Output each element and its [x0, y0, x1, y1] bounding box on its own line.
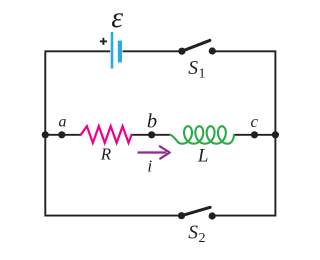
wire: middle branch left junction to resistor [45, 134, 81, 136]
svg-text:a: a [59, 114, 67, 131]
resistor R zigzag [81, 126, 132, 143]
battery plate long (negative-side tall thin) [111, 32, 114, 69]
svg-text:i: i [147, 156, 152, 175]
wire: top-left segment from corner to battery [45, 51, 110, 135]
wire: resistor to inductor through node b [131, 134, 171, 136]
right junction node dot [272, 131, 279, 138]
wire: left vertical below middle branch to bottom, to S2 left terminal [45, 135, 181, 216]
svg-text:L: L [197, 146, 209, 167]
left junction node dot [42, 131, 49, 138]
switch S1 left terminal dot [178, 48, 185, 55]
svg-text:R: R [100, 145, 112, 164]
switch S2 blade [182, 207, 211, 215]
wire: S2 right terminal to bottom-right corner up to node c [212, 135, 275, 216]
svg-text:S: S [188, 222, 198, 243]
node b dot [148, 131, 155, 138]
svg-text:b: b [147, 111, 157, 133]
svg-text:1: 1 [199, 66, 206, 81]
svg-text:ε: ε [111, 1, 123, 34]
wire: battery to switch S1 left terminal [123, 50, 182, 52]
svg-text:S: S [188, 58, 198, 79]
node a dot [58, 131, 65, 138]
svg-text:2: 2 [199, 231, 206, 246]
switch S2 left terminal dot [178, 212, 185, 219]
battery plus sign [100, 40, 107, 42]
wire: inductor to right junction through node c [234, 134, 276, 136]
current arrow shaft [138, 151, 167, 153]
battery plate short (thick) [118, 41, 122, 63]
wire: S1 right terminal to top-right corner down to node c level [212, 51, 275, 135]
switch S1 blade [182, 40, 210, 51]
svg-text:c: c [251, 112, 259, 131]
switch S1 right terminal dot [209, 47, 216, 54]
current arrow head [160, 146, 170, 158]
inductor L coil [170, 126, 234, 144]
switch S2 right terminal dot [209, 212, 216, 219]
node c dot [251, 131, 258, 138]
